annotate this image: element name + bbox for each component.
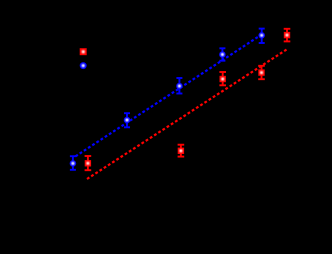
red data point 1 <box>85 160 91 166</box>
red error bar 2 <box>178 145 185 157</box>
blue data point 4 <box>219 51 226 58</box>
legend blue circle marker <box>80 62 87 69</box>
blue data point 2 <box>124 117 131 124</box>
red error bar 5 <box>284 29 291 42</box>
red data point 2 <box>178 148 184 154</box>
blue error bar 4 <box>219 48 225 60</box>
blue error bar 3 <box>176 78 182 94</box>
blue error bar 5 <box>259 29 265 43</box>
blue dashed fit line <box>76 34 263 156</box>
red error bar 3 <box>219 72 226 85</box>
blue data point 3 <box>176 83 183 90</box>
blue error bar 2 <box>124 113 130 127</box>
blue error bar 1 <box>70 156 76 170</box>
red dashed fit line <box>87 50 287 179</box>
red data point 3 <box>220 76 226 82</box>
red error bar 4 <box>258 66 265 79</box>
legend red square marker <box>80 48 87 55</box>
red error bar 1 <box>85 156 92 170</box>
blue data point 5 <box>258 32 265 39</box>
red data point 5 <box>284 32 290 38</box>
blue data point 1 <box>70 160 77 167</box>
red data point 4 <box>258 69 264 75</box>
